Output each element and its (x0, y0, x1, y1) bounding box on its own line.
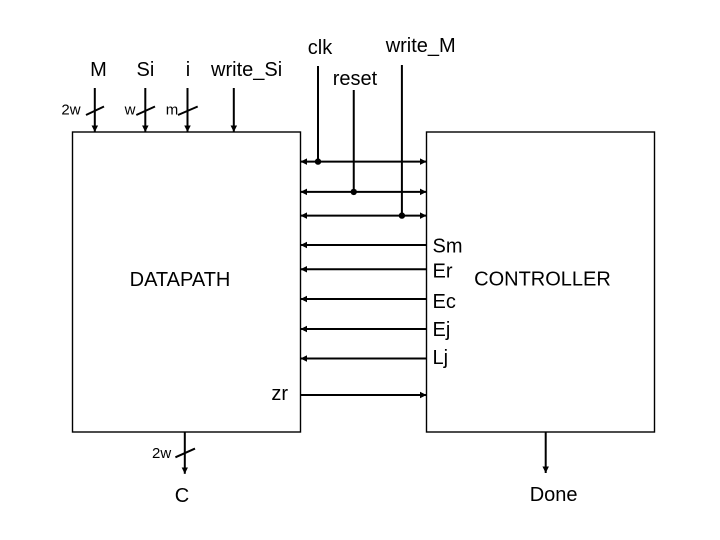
svg-text:Lj: Lj (433, 347, 449, 369)
wire net Ec (301, 298, 427, 300)
wire input i arrow (187, 88, 189, 132)
controller block U2 (427, 132, 655, 432)
svg-text:w: w (124, 102, 136, 119)
svg-text:write_Si: write_Si (210, 59, 282, 81)
wire clk vertical (317, 66, 319, 162)
wire net write_M horizontal (301, 215, 427, 217)
wire net Sm (301, 244, 427, 246)
svg-text:2w: 2w (152, 445, 171, 462)
wire output C arrow (184, 432, 186, 474)
wire net zr (301, 394, 427, 396)
bus slash M (86, 107, 104, 116)
svg-text:Er: Er (433, 260, 453, 282)
svg-text:zr: zr (271, 383, 288, 405)
svg-text:Si: Si (137, 59, 155, 81)
bus slash C (175, 449, 195, 458)
svg-text:Done: Done (530, 484, 578, 506)
svg-text:clk: clk (308, 37, 333, 59)
node write_M junction (399, 212, 405, 218)
node clk junction (315, 158, 321, 164)
svg-text:write_M: write_M (385, 35, 456, 57)
wire input M arrow (94, 88, 96, 132)
wire net Lj (301, 358, 427, 360)
svg-text:i: i (186, 59, 190, 81)
wire net reset horizontal (301, 191, 427, 193)
wire net Er (301, 268, 427, 270)
datapath block U1 (73, 132, 301, 432)
svg-text:CONTROLLER: CONTROLLER (474, 269, 611, 291)
svg-text:Sm: Sm (433, 236, 463, 258)
wire reset vertical (353, 90, 355, 192)
svg-text:M: M (90, 59, 107, 81)
wire write_M vertical (401, 65, 403, 216)
svg-text:2w: 2w (61, 102, 80, 119)
svg-text:Ej: Ej (433, 319, 451, 341)
svg-text:C: C (175, 485, 189, 507)
svg-text:DATAPATH: DATAPATH (130, 269, 231, 291)
node reset junction (351, 189, 357, 195)
wire net Ej (301, 328, 427, 330)
bus slash i (178, 107, 198, 116)
svg-text:reset: reset (333, 68, 378, 90)
wire input write_Si arrow (233, 88, 235, 132)
svg-text:Ec: Ec (433, 291, 456, 313)
svg-text:m: m (166, 102, 179, 119)
bus slash Si (136, 107, 155, 116)
wire output Done arrow (545, 432, 547, 473)
wire input Si arrow (144, 88, 146, 132)
wire net clk horizontal (301, 161, 427, 163)
